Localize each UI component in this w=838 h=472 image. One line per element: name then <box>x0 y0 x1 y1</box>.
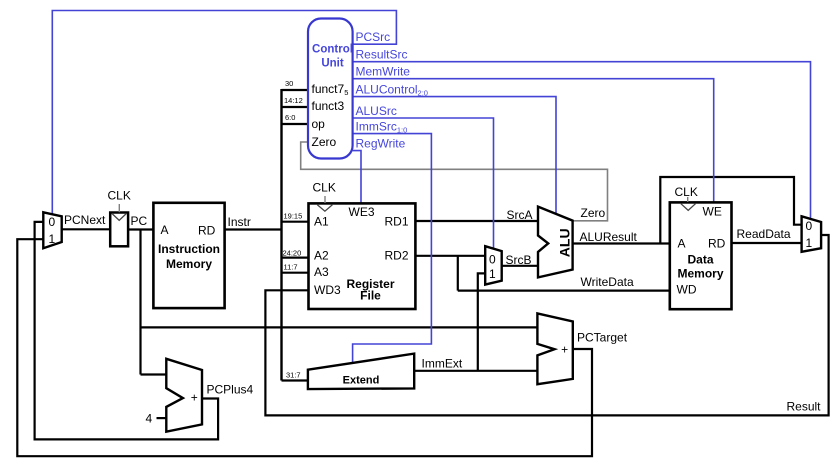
svg-text:PCSrc: PCSrc <box>356 30 391 44</box>
svg-text:A1: A1 <box>314 215 329 229</box>
clock triangle data memory <box>681 204 696 211</box>
svg-text:0: 0 <box>49 215 56 229</box>
svg-text:ALUSrc: ALUSrc <box>356 104 397 118</box>
svg-text:Memory: Memory <box>677 267 723 281</box>
wire ALUResult to Data Memory <box>573 242 670 244</box>
svg-text:4: 4 <box>146 412 153 426</box>
svg-text:ImmExt: ImmExt <box>422 357 463 371</box>
wire A3 tap <box>282 272 310 274</box>
wire ALUControl (blue) <box>353 97 556 215</box>
svg-text:Instruction: Instruction <box>158 242 220 256</box>
svg-text:Zero: Zero <box>312 135 337 149</box>
svg-text:PC: PC <box>131 214 148 228</box>
clock stub data memory <box>687 197 689 202</box>
svg-text:WD3: WD3 <box>314 283 341 297</box>
control unit <box>308 19 353 159</box>
wire PCSrc (blue) <box>52 11 396 215</box>
wire ImmExt branch up to SrcB mux input 1 <box>478 273 486 370</box>
wire ResultSrc (blue) <box>353 62 811 219</box>
clock triangle PC <box>112 213 127 220</box>
clock stub register file <box>324 196 326 203</box>
svg-text:31:7: 31:7 <box>286 371 301 380</box>
svg-text:File: File <box>360 289 381 303</box>
svg-text:PCPlus4: PCPlus4 <box>207 383 254 397</box>
wire PC to PCTarget adder <box>141 326 538 328</box>
svg-text:PCNext: PCNext <box>64 213 106 227</box>
wire A2 tap <box>282 257 310 259</box>
wire Zero from ALU to Control Unit (gray) <box>301 142 608 221</box>
wire ALUResult branch to Result mux input 0 <box>660 177 802 244</box>
svg-text:ResultSrc: ResultSrc <box>356 48 408 62</box>
svg-text:ALUResult: ALUResult <box>580 230 638 244</box>
svg-text:CLK: CLK <box>313 181 336 195</box>
wire PCTarget feedback to PC mux input 1 <box>17 239 592 456</box>
svg-text:Result: Result <box>787 400 822 414</box>
svg-text:ALUControl2:0: ALUControl2:0 <box>356 83 428 98</box>
wire PC to Instruction Memory <box>128 228 153 230</box>
svg-text:op: op <box>312 117 326 131</box>
svg-text:A2: A2 <box>314 249 329 263</box>
wire MemWrite (blue) <box>353 79 714 203</box>
svg-text:Memory: Memory <box>166 257 212 271</box>
svg-text:11:7: 11:7 <box>284 263 298 272</box>
svg-text:Instr: Instr <box>228 215 251 229</box>
svg-text:RD: RD <box>198 224 216 238</box>
mux Result <box>802 216 822 252</box>
data memory <box>670 202 732 309</box>
wire ImmExt <box>414 370 538 372</box>
svg-text:WE3: WE3 <box>349 205 375 219</box>
svg-text:WE: WE <box>703 205 722 219</box>
svg-text:RD2: RD2 <box>385 249 409 263</box>
svg-text:funct3: funct3 <box>312 99 345 113</box>
svg-text:A: A <box>678 237 686 251</box>
svg-text:A: A <box>161 223 169 237</box>
wire ReadData to Result mux input 1 <box>732 242 803 244</box>
svg-text:SrcA: SrcA <box>507 208 533 222</box>
svg-text:6:0: 6:0 <box>285 113 295 122</box>
svg-text:SrcB: SrcB <box>506 253 532 267</box>
svg-text:Control: Control <box>312 43 353 55</box>
svg-text:RegWrite: RegWrite <box>356 137 406 151</box>
svg-text:1: 1 <box>489 267 496 281</box>
svg-text:14:12: 14:12 <box>284 96 303 105</box>
svg-text:+: + <box>191 391 198 405</box>
register file <box>309 203 416 309</box>
svg-text:MemWrite: MemWrite <box>356 65 411 79</box>
wire PC tap down <box>139 230 141 375</box>
svg-text:CLK: CLK <box>108 189 131 203</box>
svg-text:ALU: ALU <box>556 228 572 257</box>
wire RD2 branch down to WriteData <box>457 256 459 291</box>
wire constant 4 into PCPlus4 <box>157 417 168 419</box>
svg-text:19:15: 19:15 <box>284 212 303 221</box>
svg-text:Unit: Unit <box>321 58 344 70</box>
svg-text:WriteData: WriteData <box>581 275 634 289</box>
svg-text:Zero: Zero <box>581 206 606 220</box>
wire Instr vertical bus <box>280 89 282 381</box>
wire ImmSrc (blue) <box>353 134 432 363</box>
instruction memory <box>153 203 224 308</box>
svg-text:0: 0 <box>489 253 496 267</box>
svg-text:Extend: Extend <box>343 375 380 387</box>
svg-text:CLK: CLK <box>675 185 698 199</box>
extend unit <box>308 354 414 390</box>
wire funct3 tap <box>282 106 309 108</box>
wire PC to PCPlus4 adder <box>141 373 168 375</box>
svg-text:PCTarget: PCTarget <box>577 331 628 345</box>
svg-text:ReadData: ReadData <box>737 227 791 241</box>
clock triangle register file <box>317 205 332 212</box>
wire Instr <box>225 228 282 230</box>
svg-text:RD: RD <box>708 237 726 251</box>
wire SrcB to ALU <box>501 265 539 267</box>
wire Instr 31:7 to Extend <box>282 379 309 381</box>
clock stub PC <box>118 204 120 212</box>
wire RD2 to SrcB mux input 0 <box>415 255 485 257</box>
wire PCNext <box>61 228 110 230</box>
svg-text:24:20: 24:20 <box>283 249 302 258</box>
svg-text:0: 0 <box>806 219 813 233</box>
svg-text:WD: WD <box>677 283 697 297</box>
ALU U1 <box>538 207 573 278</box>
wire Result feedback to Register File WD3 <box>265 235 828 415</box>
svg-text:funct75: funct75 <box>312 82 349 97</box>
svg-text:1: 1 <box>49 232 56 246</box>
mux PCNext <box>43 212 61 248</box>
wire op tap <box>282 123 309 125</box>
svg-text:Data: Data <box>687 253 713 267</box>
wire RegWrite (blue) <box>353 151 361 204</box>
wire ALUSrc (blue) <box>353 118 494 249</box>
wire PCPlus4 feedback to PC mux input 0 <box>35 222 219 440</box>
svg-text:1: 1 <box>806 236 813 250</box>
mux SrcB <box>485 246 502 284</box>
register PC <box>110 213 128 247</box>
adder PCPlus4 <box>166 359 202 432</box>
svg-text:30: 30 <box>285 79 293 88</box>
wire WriteData <box>458 290 670 292</box>
svg-text:A3: A3 <box>314 265 329 279</box>
wire RD1 SrcA to ALU <box>415 220 539 222</box>
adder PCTarget <box>537 313 572 384</box>
wire A1 tap <box>282 221 310 223</box>
svg-text:+: + <box>561 342 568 356</box>
wire funct7 tap <box>282 89 309 91</box>
svg-text:RD1: RD1 <box>385 215 409 229</box>
